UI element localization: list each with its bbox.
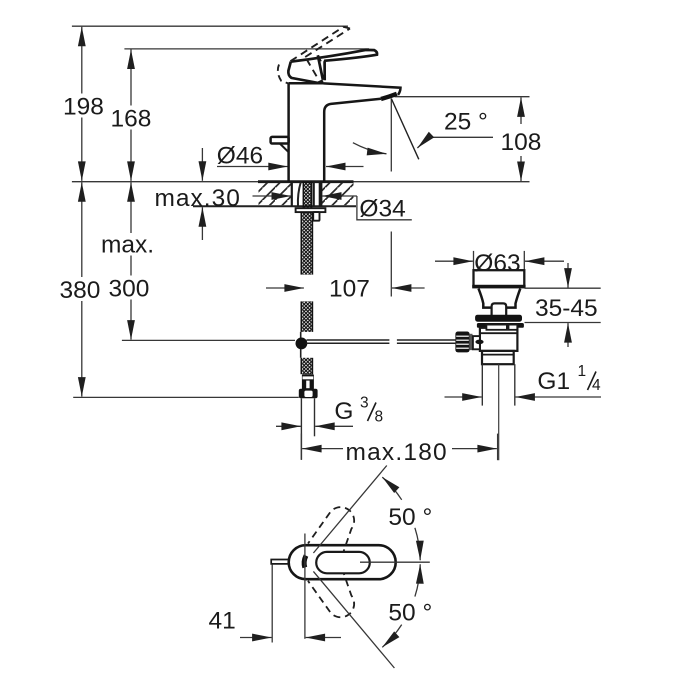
waste second ring bbox=[477, 323, 524, 328]
waste collar bbox=[482, 351, 514, 364]
label 25deg bbox=[444, 109, 488, 136]
G3/8 pipe lines bbox=[301, 398, 314, 460]
svg-text:max.180: max.180 bbox=[346, 439, 448, 466]
label max.180 bbox=[346, 439, 448, 466]
dimension arrows G1 1/4 bbox=[445, 396, 602, 398]
svg-text:3: 3 bbox=[360, 395, 369, 412]
label G 3/8 bbox=[334, 395, 383, 426]
horizontal pop-up rod bbox=[307, 340, 456, 343]
pop-up rod curve in counter hole bbox=[298, 182, 301, 206]
top view outer capsule bbox=[289, 545, 396, 579]
reference line (168) bbox=[124, 48, 369, 50]
spout axis extension line bbox=[390, 99, 392, 297]
supply hose in counter hole bbox=[303, 182, 311, 212]
label diam63 bbox=[474, 250, 520, 277]
label 300 bbox=[107, 276, 155, 303]
svg-text:G1: G1 bbox=[537, 368, 570, 395]
rod boss on waste body bbox=[473, 336, 484, 349]
lift rod knob bbox=[271, 137, 289, 152]
label 380 bbox=[58, 277, 105, 304]
flexible hose segment 2 bbox=[301, 301, 312, 332]
waste flange ring bbox=[475, 315, 522, 322]
label G1 1/4 bbox=[537, 363, 601, 395]
41 extension line bbox=[271, 565, 273, 643]
top view pivot mark bbox=[304, 556, 306, 568]
svg-text:380: 380 bbox=[60, 277, 101, 304]
label 108 bbox=[501, 129, 542, 156]
rod knuckle knurled knob bbox=[455, 332, 472, 353]
shank nut below counter bbox=[296, 208, 326, 221]
max.30 arrows bbox=[201, 148, 203, 240]
label diam34 bbox=[359, 196, 405, 223]
lever blade bbox=[291, 50, 377, 80]
waste top flange bbox=[472, 270, 525, 288]
svg-text:Ø34: Ø34 bbox=[359, 196, 405, 223]
50deg arc lower bbox=[382, 564, 420, 647]
svg-text:8: 8 bbox=[375, 408, 384, 425]
aerator bbox=[381, 94, 397, 99]
svg-text:300: 300 bbox=[109, 276, 150, 303]
flexible hose segment 3 bbox=[301, 358, 312, 374]
svg-text:107: 107 bbox=[329, 275, 370, 302]
label 50deg upper bbox=[388, 504, 432, 531]
dimension arrows diam63 bbox=[435, 260, 564, 262]
waste body bbox=[480, 328, 518, 351]
max.180 extension bars bbox=[301, 434, 497, 461]
dimension 198 vertical with arrows bbox=[81, 27, 83, 181]
counter hole walls bbox=[292, 182, 322, 207]
label 41 bbox=[209, 608, 236, 635]
25deg swing arc arrow bbox=[353, 143, 387, 154]
waste overflow slots bbox=[486, 325, 517, 330]
dimension 41 arrows bbox=[240, 637, 341, 639]
top reference line (198) bbox=[72, 25, 348, 27]
waste neck bbox=[479, 289, 521, 308]
label 50deg lower bbox=[388, 600, 432, 627]
50deg arc upper bbox=[382, 477, 420, 560]
counter top line bbox=[72, 181, 530, 183]
waste centerline bbox=[498, 364, 500, 460]
dimension 168 vertical with arrows bbox=[130, 50, 132, 181]
dimension arrows 35-45 bbox=[567, 263, 569, 347]
lever raised dashed outline bbox=[278, 27, 350, 84]
svg-text:Ø63: Ø63 bbox=[474, 250, 520, 277]
108 top reference line bbox=[395, 96, 530, 98]
G3/8 connection nut bbox=[299, 389, 318, 399]
pop-up rod vertical at ball bbox=[300, 332, 302, 358]
ball joint bbox=[296, 338, 308, 350]
label 198 bbox=[61, 94, 107, 121]
svg-text:41: 41 bbox=[209, 608, 236, 635]
flexible hose segment 1 bbox=[301, 212, 312, 275]
svg-text:1: 1 bbox=[578, 363, 587, 380]
50deg line lower bbox=[313, 571, 394, 668]
svg-text:G: G bbox=[334, 398, 353, 425]
dimension max.180 arrows bbox=[302, 448, 497, 450]
svg-text:168: 168 bbox=[111, 106, 152, 133]
25deg water stream line bbox=[391, 99, 419, 160]
dimension 108 vertical arrows bbox=[520, 97, 522, 181]
svg-text:max.30: max.30 bbox=[155, 185, 241, 212]
dimension arrows diam46 bbox=[217, 166, 364, 168]
faucet spout top and nose bbox=[324, 83, 401, 95]
svg-text:50 °: 50 ° bbox=[388, 600, 432, 627]
top view dashed swung handle lower bbox=[308, 568, 354, 617]
label 168 bbox=[108, 106, 155, 133]
380 bottom reference line bbox=[73, 396, 299, 398]
svg-text:35-45: 35-45 bbox=[535, 295, 598, 322]
label max.30 bbox=[155, 185, 241, 212]
dimension max.300 vertical with arrows bbox=[130, 182, 132, 339]
counter bottom line bbox=[193, 205, 356, 207]
label 107 bbox=[329, 275, 370, 302]
35-45 reference lines bbox=[525, 288, 601, 322]
waste diam63 extension lines bbox=[474, 251, 525, 271]
diam34 leader and underline bbox=[357, 196, 412, 220]
mounting shank lines bbox=[314, 182, 320, 206]
svg-text:Ø46: Ø46 bbox=[217, 143, 263, 170]
dimension 380 vertical with arrows bbox=[81, 182, 83, 396]
svg-text:4: 4 bbox=[592, 377, 601, 394]
top view horizontal centerline bbox=[360, 561, 430, 563]
dimension 107 arrows bbox=[266, 287, 425, 289]
dimension arrows diam34 at hole bbox=[253, 195, 357, 197]
counter hatching left bbox=[259, 183, 292, 205]
label max. bbox=[100, 232, 157, 259]
top view dashed swung handle upper bbox=[308, 507, 354, 556]
faucet body bbox=[289, 83, 381, 182]
counter hatching right bbox=[322, 183, 354, 205]
svg-text:max.: max. bbox=[101, 232, 154, 259]
25deg leader arrow bbox=[417, 137, 493, 148]
svg-text:108: 108 bbox=[501, 129, 542, 156]
lever cap bbox=[288, 62, 323, 83]
top view left protrusion bbox=[271, 560, 288, 564]
dimension arrows G3/8 bbox=[276, 425, 353, 427]
top view inner handle capsule bbox=[316, 552, 370, 573]
svg-text:25 °: 25 ° bbox=[444, 109, 488, 136]
label diam46 bbox=[217, 143, 263, 170]
300 bottom reference line bbox=[122, 339, 295, 341]
50deg line upper bbox=[313, 466, 386, 554]
waste lift pin bbox=[492, 303, 507, 315]
label 35-45 bbox=[535, 295, 598, 322]
svg-text:50 °: 50 ° bbox=[388, 504, 432, 531]
hose ferrule bbox=[302, 374, 314, 389]
waste tailpipe bbox=[482, 364, 515, 405]
svg-text:198: 198 bbox=[63, 94, 104, 121]
top view vertical centerline bbox=[304, 534, 306, 639]
